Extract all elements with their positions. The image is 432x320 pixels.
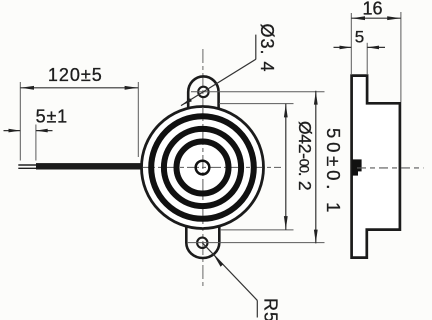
- svg-text:R5: R5: [261, 298, 281, 320]
- dim 50±0.1 dimension line: [315, 91, 317, 244]
- arrow right: [125, 86, 138, 90]
- leader Ø3.4: [255, 35, 257, 60]
- dim 120±5: dimension line: [20, 87, 138, 89]
- dim line vertical: [285, 104, 287, 230]
- centerline vertical (front view): [202, 49, 204, 287]
- ring 2: [164, 129, 241, 206]
- dim 5 (side): extension line mid: [366, 43, 368, 74]
- leader R5: [202, 243, 257, 301]
- svg-text:5: 5: [355, 28, 364, 47]
- wire stripped leads: [18, 164, 37, 166]
- ring 1: [151, 116, 254, 219]
- arrow left: [21, 86, 34, 90]
- dim Ø42: extension lines: [219, 103, 294, 105]
- dim 5±1: extension line right: [35, 125, 37, 161]
- centerlines inside circle redrawn: [202, 107, 204, 228]
- dim line + outside arrows: [4, 130, 21, 132]
- buzzer outer circle: [142, 107, 264, 229]
- ring 3: [177, 142, 229, 194]
- svg-text:Ø3. 4: Ø3. 4: [257, 24, 277, 73]
- terminal bump on side view: [352, 159, 362, 171]
- centerline horizontal (front view): [142, 166, 281, 168]
- tab top: [188, 76, 218, 109]
- dim 120±5: extension lines: [19, 82, 21, 161]
- dim line + outside arrows: [334, 46, 352, 48]
- dim 16: extension lines: [350, 13, 352, 74]
- wire insulated: [36, 163, 143, 169]
- svg-text:5±1: 5±1: [36, 107, 68, 127]
- tab bottom hole crosshair / extension line 50 bottom: [187, 242, 325, 244]
- dim line 16: [351, 17, 401, 19]
- text Ø42-0.2 rotated with stacked tolerance: [295, 121, 315, 190]
- side view outline: [352, 76, 400, 258]
- svg-text:16: 16: [362, 0, 382, 19]
- tab bottom hole: [197, 238, 207, 248]
- center hole: [196, 161, 210, 175]
- tab top hole crosshair / extension line 50 top: [191, 91, 325, 93]
- svg-text:Ø42-00. 2: Ø42-00. 2: [295, 121, 315, 190]
- svg-text:120±5: 120±5: [48, 65, 103, 85]
- side view dashed centerline: [357, 167, 424, 169]
- tab top hole: [198, 87, 208, 97]
- svg-text:50±0. 1: 50±0. 1: [323, 128, 344, 216]
- tab bottom: [186, 227, 219, 259]
